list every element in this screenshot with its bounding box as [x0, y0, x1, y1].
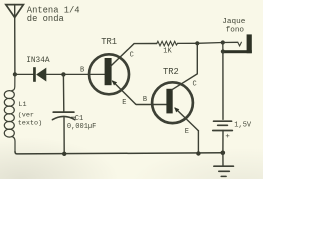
wire node B down to capacitor C1 — [62, 74, 64, 111]
ground GND stub — [222, 153, 224, 166]
transistor TR2 body circle — [152, 82, 193, 123]
wire battery branch vertical (node D to jack sleeve node) — [222, 43, 224, 52]
TR2 collector lead (diagonal then vertical to node C) — [172, 43, 198, 90]
node B junction dot (diode / C1 / TR1 base) — [61, 72, 65, 76]
label Jaque fono — [222, 18, 245, 35]
diode D1 1N34A (cathode left) — [33, 67, 46, 82]
wire diode to node B — [46, 73, 63, 75]
wire node A to diode D1 — [15, 73, 33, 75]
svg-text:C: C — [193, 81, 197, 89]
resistor R1 1K zigzag — [157, 41, 178, 46]
battery B1 plate 1 (long) — [214, 120, 232, 122]
svg-text:E: E — [185, 128, 189, 136]
label L1 (ver texto) — [18, 101, 42, 128]
svg-text:E: E — [122, 99, 126, 107]
wire R1 to node C — [178, 42, 198, 44]
svg-text:1K: 1K — [163, 47, 172, 55]
transistor TR2 base bar — [166, 89, 172, 114]
bottom rail wire — [15, 152, 223, 154]
svg-text:1,5V: 1,5V — [234, 122, 252, 130]
wire TR1 emitter to TR2 base — [136, 103, 167, 105]
wire node E down to battery — [222, 52, 224, 120]
TR2 emitter lead with PNP arrow — [174, 107, 198, 131]
wire node B to TR1 base bar — [63, 73, 105, 75]
antenna ANT (1/4 wave) — [6, 5, 24, 18]
node C junction dot (R1 / TR2 collector) — [195, 41, 199, 45]
capacitor C1 top plate — [53, 111, 74, 113]
node dot C1 on bottom rail — [62, 152, 66, 156]
ground GND bar 1 — [214, 165, 234, 167]
svg-text:fono: fono — [226, 27, 245, 35]
phone jack J1 tip contact (v spring) — [238, 42, 242, 46]
svg-text:+: + — [225, 133, 230, 141]
svg-text:IN34A: IN34A — [26, 57, 50, 65]
phone jack J1 sleeve (L shape) — [224, 34, 252, 53]
wire node D to jack tip contact — [223, 41, 238, 43]
node A junction dot (antenna / diode / coil) — [13, 72, 17, 76]
svg-text:Jaque: Jaque — [222, 18, 245, 26]
wire node C to node D — [197, 42, 223, 45]
battery B1 plate 3 (long) — [213, 130, 233, 132]
svg-text:C1: C1 — [75, 115, 83, 123]
svg-text:C: C — [130, 52, 134, 60]
capacitor C1 curved plate — [52, 116, 74, 119]
ground GND bar 3 — [221, 175, 226, 177]
svg-text:B: B — [80, 66, 84, 74]
node E junction dot (jack sleeve / battery) — [221, 49, 225, 53]
capacitor C1 leader tick — [71, 116, 75, 118]
inductor L1 coil — [4, 74, 15, 151]
battery B1 plate 2 (short) — [218, 124, 228, 126]
node D junction dot (top rail / battery branch) — [221, 40, 225, 44]
svg-text:0,001µF: 0,001µF — [67, 123, 96, 131]
svg-text:de onda: de onda — [27, 14, 64, 24]
svg-text:(ver: (ver — [18, 111, 34, 119]
node dot battery/ground on bottom rail — [221, 151, 226, 156]
svg-text:L1: L1 — [18, 101, 26, 109]
transistor TR1 base bar — [105, 58, 112, 85]
TR1 collector lead (diagonal to top rail) — [111, 44, 157, 67]
svg-text:TR1: TR1 — [101, 37, 117, 47]
TR1 emitter lead with PNP arrow — [112, 80, 136, 104]
wire TR2 emitter down to bottom rail — [197, 131, 199, 154]
wire battery to bottom rail — [222, 131, 224, 153]
svg-text:TR2: TR2 — [163, 67, 179, 77]
ground GND bar 2 — [219, 170, 230, 172]
transistor TR1 body circle — [89, 54, 129, 94]
label Antena 1/4 de onda — [27, 6, 80, 24]
svg-text:B: B — [143, 96, 147, 104]
svg-text:texto): texto) — [18, 120, 42, 128]
wire C1 down to bottom rail — [63, 118, 65, 154]
node dot TR2 emitter on bottom rail — [196, 151, 200, 155]
wire antenna down-lead to node A — [14, 18, 16, 75]
